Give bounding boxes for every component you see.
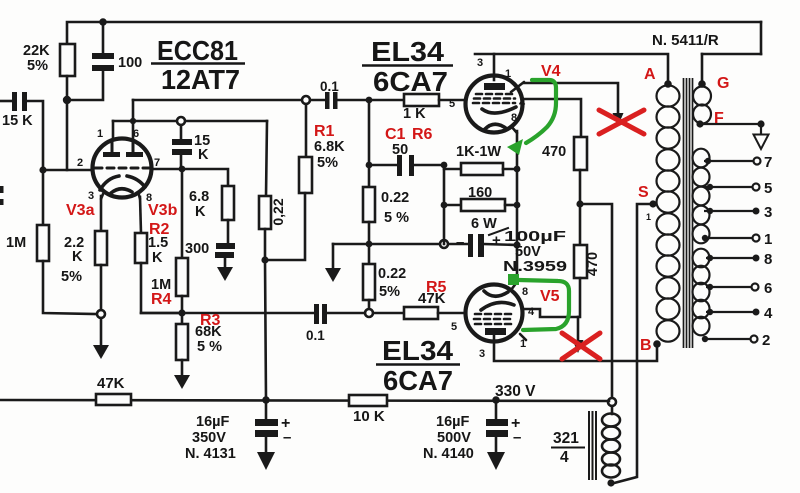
- svg-text:350V: 350V: [192, 430, 226, 446]
- wire V3a cathode pin3 to 2.2K: [100, 196, 103, 231]
- svg-text:1: 1: [764, 231, 772, 248]
- node B primary bottom: [653, 340, 661, 348]
- node R4/R3/grid-line junction: [178, 309, 185, 316]
- wire V4 anode to transformer A: [475, 54, 668, 84]
- svg-text:EL34: EL34: [382, 335, 453, 366]
- wire to ground below circle: [100, 318, 103, 346]
- wire 300 cap to ground: [224, 258, 227, 268]
- svg-text:3: 3: [88, 190, 94, 202]
- svg-text:8: 8: [764, 251, 772, 268]
- resistor 6.8K: [222, 186, 234, 220]
- wire F tap: [700, 123, 761, 125]
- capacitor 300 plates: [216, 243, 235, 249]
- wire 1.5K bottom to grid line: [141, 263, 182, 313]
- wire 470 lower to V5 pin4: [523, 278, 580, 317]
- capacitor 15K feedback bottom lead: [180, 155, 183, 169]
- wire V3b plate pin6 riser: [132, 100, 135, 141]
- choke 321/4 core: [588, 412, 590, 479]
- svg-text:K: K: [72, 249, 83, 265]
- green annotation arrow V4: [507, 80, 556, 155]
- resistor 160 6W: [461, 199, 505, 211]
- wire G drop: [701, 54, 704, 84]
- choke top lead: [611, 406, 614, 414]
- svg-text:321: 321: [553, 430, 579, 447]
- svg-text:1: 1: [646, 212, 651, 222]
- wire V3a grid line: [43, 169, 92, 172]
- transformer secondary winding upper: [693, 149, 710, 168]
- svg-text:16µF: 16µF: [436, 414, 469, 430]
- wire V3b grid pin7 line: [152, 169, 228, 186]
- svg-text:3: 3: [479, 348, 485, 360]
- wire 0.22 lower bottom to grid line: [368, 300, 371, 309]
- resistor R4 1M: [176, 258, 188, 296]
- ground arrow R3: [174, 375, 190, 389]
- svg-text:C1: C1: [385, 126, 406, 143]
- svg-text:300: 300: [185, 241, 209, 257]
- wire 1M top lead: [42, 170, 45, 225]
- svg-text:N.3959: N.3959: [503, 259, 567, 275]
- resistor R2 1.5K: [135, 233, 147, 263]
- wire V5 anode pin3 to B: [494, 342, 657, 361]
- tap 5: [704, 186, 754, 188]
- svg-text:1: 1: [97, 128, 103, 140]
- wire 1K-1W right lead: [503, 168, 517, 171]
- node 16uF-500V junction: [492, 396, 500, 404]
- resistor R4 1M top lead: [181, 169, 184, 258]
- svg-text:3: 3: [764, 204, 772, 221]
- node 16uF-350V junction: [262, 396, 270, 404]
- capacitor 16uF 500V plates: [486, 419, 508, 426]
- svg-text:3: 3: [477, 57, 483, 69]
- svg-text:160: 160: [468, 185, 492, 201]
- svg-text:12AT7: 12AT7: [161, 64, 240, 95]
- svg-text:5: 5: [449, 98, 455, 110]
- transformer N.5411/R: [657, 78, 769, 348]
- svg-text:500V: 500V: [437, 430, 471, 446]
- svg-text:1: 1: [520, 338, 526, 350]
- ground arrow 16uF 350V: [257, 452, 275, 470]
- wire 22K bottom to grid line: [66, 76, 69, 170]
- wire .22 bottom to node: [264, 229, 267, 260]
- resistor 1M: [37, 225, 49, 261]
- svg-text:4: 4: [764, 305, 773, 322]
- svg-text:V3b: V3b: [148, 202, 178, 219]
- svg-text:0.1: 0.1: [306, 328, 325, 343]
- svg-text:7: 7: [764, 154, 772, 171]
- capacitor C1 50 plates: [397, 155, 402, 176]
- svg-text:4: 4: [528, 306, 535, 318]
- svg-text:1: 1: [505, 68, 511, 80]
- capacitor 100 top lead: [102, 22, 105, 53]
- svg-text:R5: R5: [426, 279, 447, 296]
- wire rail right drop: [760, 22, 763, 54]
- fraction bar ECC81/12AT7: [151, 62, 245, 65]
- wire C1 right lead: [414, 164, 444, 167]
- resistor 0.22 5% lower top lead: [368, 244, 371, 264]
- svg-text:K: K: [152, 250, 163, 266]
- wire R1 bottom to supply column: [265, 193, 305, 260]
- wire 470 upper bottom: [579, 170, 582, 204]
- svg-text:15 K: 15 K: [2, 113, 33, 129]
- node G secondary top: [698, 80, 706, 88]
- svg-text:470: 470: [542, 144, 566, 160]
- svg-text:ECC81: ECC81: [157, 35, 238, 66]
- red X mark V4: [599, 110, 644, 134]
- resistor 22K 5%: [60, 44, 75, 76]
- wire R3 bottom to ground: [181, 360, 184, 376]
- svg-text:N. 4131: N. 4131: [185, 446, 236, 462]
- wire .22 plate load top lead: [266, 121, 267, 196]
- svg-text:6: 6: [764, 280, 772, 297]
- capacitor 0.1 coupling lower plates: [314, 304, 319, 324]
- svg-text:2: 2: [762, 332, 770, 349]
- tap 2: [703, 338, 752, 340]
- transformer primary winding: [657, 85, 680, 106]
- svg-text:–: –: [283, 429, 291, 446]
- wire 6.8K to 300 cap: [227, 220, 230, 243]
- capacitor 15K feedback plates: [172, 139, 192, 145]
- wire supply column down to 330V line: [265, 260, 266, 400]
- svg-text:6.8: 6.8: [189, 189, 209, 205]
- node 22K/100pF bottom junction: [63, 96, 71, 104]
- svg-text:0.22: 0.22: [381, 190, 409, 206]
- resistor 10K: [349, 395, 387, 406]
- node rail/100pF junction: [99, 18, 107, 26]
- svg-text:0.1: 0.1: [320, 79, 339, 94]
- wire 1K-1W left lead: [444, 168, 461, 171]
- node line B / 15K cap tap open circle: [177, 117, 185, 125]
- node F wire end: [757, 120, 764, 127]
- ground arrow hollow F: [754, 135, 769, 150]
- tap 1: [703, 237, 754, 239]
- wire plate line A: [133, 99, 306, 102]
- polarity tick 100uF: [489, 228, 508, 235]
- wire 160 left lead: [444, 204, 461, 207]
- node grid/1M junction: [39, 166, 46, 173]
- svg-text:8: 8: [522, 286, 528, 298]
- wire 160 right lead: [505, 204, 517, 207]
- svg-text:F: F: [714, 110, 724, 127]
- wire cathode ground bus: [333, 243, 469, 246]
- wire 330V B+ line: [0, 400, 609, 401]
- node R1/.22/supply junction: [261, 256, 268, 263]
- node choke top open circle: [608, 398, 616, 406]
- wire screen junction to choke column: [580, 204, 612, 398]
- wire 0.22 upper bottom: [368, 222, 371, 244]
- resistor 47K feedback: [96, 394, 131, 405]
- node screen junction: [576, 200, 583, 207]
- svg-text:330 V: 330 V: [495, 383, 536, 400]
- ground arrow V3 cathode: [93, 345, 109, 359]
- resistor R1 6.8K top lead: [305, 104, 308, 157]
- node 0.22/ground-wire junction: [366, 241, 373, 248]
- wire 15K cap to V3a grid: [27, 101, 43, 170]
- capacitor 16uF 350V plates: [255, 419, 278, 426]
- wire C1 left lead: [369, 164, 397, 167]
- resistor 470 lower: [574, 245, 587, 278]
- capacitor 15K input left lead: [0, 100, 12, 103]
- node pin7/cap/R4 junction: [179, 166, 186, 173]
- svg-text:50V: 50V: [515, 244, 541, 260]
- svg-text:6CA7: 6CA7: [373, 66, 448, 97]
- wire line A continues to V4 grid: [310, 99, 325, 102]
- resistor 470 lower top lead: [579, 204, 582, 245]
- svg-text:16µF: 16µF: [196, 414, 229, 430]
- ground arrow cathode bus: [325, 268, 341, 282]
- svg-text:R6: R6: [412, 126, 433, 143]
- capacitor 16uF 350V lead: [265, 400, 268, 419]
- wire S tap to down column: [614, 204, 653, 483]
- capacitor 15K plates: [12, 92, 17, 111]
- capacitor 0.1 coupling upper plates: [325, 92, 330, 109]
- wire ground stub left: [332, 244, 335, 269]
- svg-text:B: B: [640, 337, 652, 354]
- svg-text:5%: 5%: [379, 284, 400, 300]
- svg-text:0,22: 0,22: [270, 198, 286, 225]
- svg-text:5%: 5%: [317, 155, 338, 171]
- wire V4 pin4 to 470 screen resistor: [522, 99, 581, 137]
- svg-text:V5: V5: [540, 288, 560, 305]
- wire shared cathode column V4-V5: [516, 131, 519, 282]
- tap 3: [704, 210, 754, 212]
- red X mark V5: [562, 333, 600, 359]
- wire R4 bottom: [181, 296, 184, 313]
- svg-text:N. 5411/R: N. 5411/R: [652, 32, 719, 49]
- resistor 0.22 5% upper: [363, 187, 375, 222]
- svg-text:22K: 22K: [23, 43, 50, 59]
- svg-text:5 %: 5 %: [197, 339, 222, 355]
- svg-text:R4: R4: [151, 291, 172, 308]
- tap 6: [706, 286, 753, 288]
- tap 8: [706, 257, 754, 259]
- svg-text:2: 2: [77, 157, 83, 169]
- resistor R3 68K top lead: [181, 313, 184, 324]
- node F tap: [696, 120, 703, 127]
- svg-text:5%: 5%: [61, 269, 82, 285]
- svg-text:V4: V4: [541, 63, 561, 80]
- wire 100uF right lead: [484, 244, 517, 245]
- svg-text:R3: R3: [200, 312, 221, 329]
- node choke bottom: [607, 479, 614, 486]
- node bus/1K-1W column open circle: [440, 240, 448, 248]
- resistor 2.2K 5%: [95, 231, 107, 265]
- svg-text:4: 4: [519, 97, 526, 109]
- svg-text:5: 5: [764, 180, 772, 197]
- transformer secondary winding lower: [693, 249, 710, 268]
- wire V5 grid line: [141, 312, 314, 315]
- svg-text:100µF: 100µF: [504, 229, 566, 245]
- svg-text:1 K: 1 K: [403, 106, 426, 122]
- svg-text:5 %: 5 %: [384, 210, 409, 226]
- wire 1K to V4 pin5: [439, 99, 466, 102]
- svg-text:S: S: [638, 184, 649, 201]
- wire V4 anode riser pin3: [493, 54, 496, 80]
- wire V3a plate line B left corner: [112, 121, 115, 138]
- svg-text:10 K: 10 K: [353, 408, 385, 425]
- svg-text:A: A: [644, 66, 656, 83]
- capacitor 16uF 350V ground stub: [265, 437, 268, 453]
- svg-text:47K: 47K: [97, 375, 125, 392]
- node A primary top: [664, 80, 672, 88]
- svg-text:R2: R2: [149, 221, 170, 238]
- wire plate line B: [113, 120, 267, 123]
- edge mark artifact upper: [0, 186, 4, 193]
- svg-text:8: 8: [511, 112, 517, 124]
- node 100uF/cathode column: [513, 241, 520, 248]
- edge mark artifact lower: [0, 199, 4, 205]
- node column/1K-1W: [441, 162, 448, 169]
- wire R5 to V5 pin5: [438, 312, 466, 315]
- svg-text:+: +: [492, 232, 501, 249]
- node cathode column/1K-1W: [514, 166, 521, 173]
- node line A / R1 top open circle: [302, 96, 310, 104]
- svg-text:7: 7: [154, 157, 160, 169]
- svg-text:V3a: V3a: [66, 202, 95, 219]
- capacitor 15K feedback top lead: [180, 125, 183, 139]
- svg-text:N. 4140: N. 4140: [423, 446, 474, 462]
- svg-text:R1: R1: [314, 123, 335, 140]
- node 0.1 / grid-leak column junction: [366, 97, 373, 104]
- choke 321/4 winding: [602, 414, 620, 427]
- svg-text:1K-1W: 1K-1W: [456, 144, 501, 160]
- resistor 470 upper: [574, 137, 587, 170]
- arrow removed connection V5 stub: [577, 317, 580, 341]
- svg-text:K: K: [195, 204, 206, 220]
- svg-text:4: 4: [560, 449, 569, 466]
- resistor 0.22 5% upper top lead: [368, 165, 371, 187]
- ground arrow 16uF 500V: [487, 452, 505, 470]
- tube V5 EL34: [466, 282, 527, 342]
- wire V3b cathode pin8 lead: [140, 197, 141, 233]
- resistor R3 68K: [176, 324, 188, 360]
- resistor R5 47K: [404, 307, 438, 319]
- svg-text:50: 50: [392, 142, 408, 158]
- capacitor 100uF plates: [468, 234, 473, 257]
- ground arrow 300 cap: [217, 267, 233, 281]
- svg-text:EL34: EL34: [371, 36, 444, 67]
- svg-text:–: –: [456, 234, 464, 251]
- resistor R6 1K: [404, 94, 439, 106]
- arrow removed connection V5: [573, 340, 584, 353]
- tap 7: [704, 160, 755, 162]
- svg-text:6.8K: 6.8K: [314, 139, 345, 155]
- tap 4: [706, 311, 754, 313]
- svg-text:6CA7: 6CA7: [383, 365, 453, 396]
- svg-text:5%: 5%: [27, 58, 48, 74]
- wire grid line to R5: [373, 312, 404, 315]
- node column/160: [441, 202, 448, 209]
- tube V4 EL34: [466, 76, 525, 134]
- svg-text:6: 6: [133, 128, 139, 140]
- transformer core laminations: [683, 78, 685, 348]
- green annotation bracket V5: [508, 274, 569, 330]
- tube V3 ECC81: [93, 139, 152, 200]
- wire 2.2K bottom: [100, 265, 103, 310]
- wire box bottom to G: [702, 53, 761, 56]
- node cathode column/160: [514, 202, 521, 209]
- arrow removed connection V4: [613, 113, 624, 126]
- node S primary tap: [649, 200, 656, 207]
- node cathode common open circle: [97, 310, 105, 318]
- wire F ground stub: [760, 124, 762, 135]
- svg-text:K: K: [198, 147, 209, 163]
- resistor 0.22 5% lower: [363, 264, 375, 300]
- resistor 0,22 plate load: [259, 196, 271, 229]
- capacitor 100 plates: [92, 53, 114, 59]
- wire grid line after 0.1: [327, 312, 365, 315]
- svg-text:6 W: 6 W: [471, 216, 497, 232]
- wire 1M bottom to common node: [43, 261, 96, 314]
- wire V4 pin1 horizontal: [524, 83, 618, 114]
- transformer G-F winding: [693, 87, 711, 106]
- node line A/B crossing: [130, 118, 136, 124]
- wire top supply rail: [67, 22, 761, 44]
- svg-text:–: –: [513, 429, 521, 446]
- capacitor 16uF 500V ground stub: [495, 437, 498, 453]
- svg-text:470: 470: [585, 252, 601, 276]
- wire grid-leak column top: [368, 100, 371, 165]
- node V5 grid line open circle: [365, 309, 373, 317]
- svg-text:0.22: 0.22: [378, 266, 406, 282]
- svg-text:1M: 1M: [6, 235, 26, 251]
- svg-text:100: 100: [118, 55, 142, 71]
- capacitor 100 bottom lead: [67, 71, 103, 100]
- resistor 1K-1W: [461, 163, 503, 175]
- svg-text:5: 5: [451, 321, 457, 333]
- resistor R1 6.8K: [299, 157, 312, 193]
- svg-text:G: G: [717, 75, 729, 92]
- capacitor 16uF 500V lead: [495, 400, 498, 419]
- wire 1K-1W / 160 column: [443, 165, 446, 244]
- node C1 junction: [366, 162, 373, 169]
